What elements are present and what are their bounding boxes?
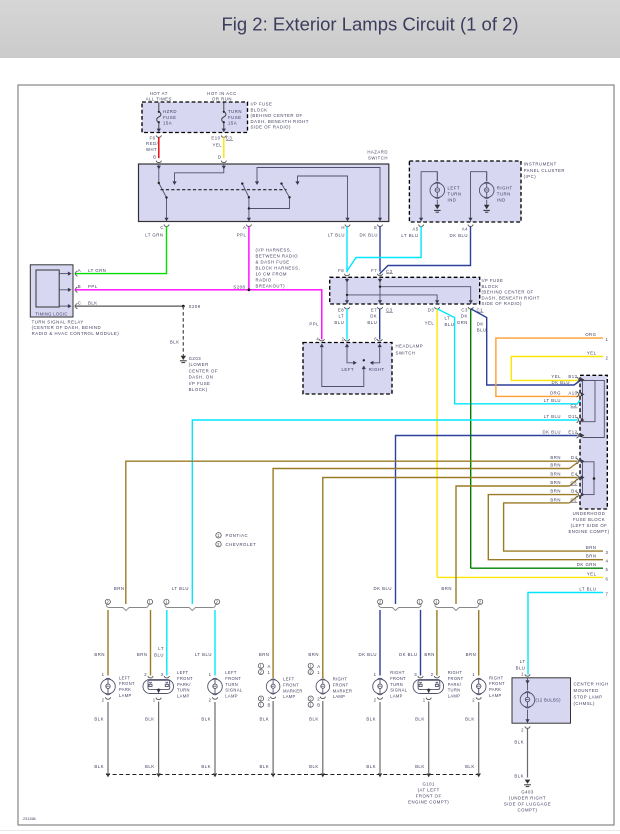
svg-text:LAMP: LAMP: [333, 694, 346, 699]
svg-text:LAMP: LAMP: [119, 693, 132, 698]
svg-text:(LEFT SIDE OF: (LEFT SIDE OF: [571, 523, 608, 528]
svg-text:1: 1: [606, 337, 609, 342]
svg-text:PANEL CLUSTER: PANEL CLUSTER: [524, 168, 565, 173]
svg-text:E10: E10: [211, 136, 220, 141]
svg-text:PARK: PARK: [119, 687, 131, 692]
wire LT BLU hazard H to F8: [346, 226, 348, 271]
svg-text:2: 2: [342, 336, 345, 341]
svg-text:1: 1: [435, 600, 438, 605]
svg-text:ENGINE COMPT): ENGINE COMPT): [408, 800, 449, 805]
svg-text:BRN: BRN: [466, 652, 477, 657]
svg-text:C2: C2: [571, 497, 578, 502]
svg-text:2: 2: [102, 697, 105, 702]
svg-text:FRONT: FRONT: [119, 681, 135, 686]
bracket 1 (BRN feed): [106, 605, 148, 611]
svg-text:C2: C2: [571, 403, 578, 408]
svg-text:BRN: BRN: [550, 497, 561, 502]
svg-text:PPL: PPL: [309, 322, 319, 327]
fuse HZRD FUSE 15A: [157, 103, 161, 132]
svg-text:LEFT: LEFT: [177, 670, 189, 675]
svg-text:S208: S208: [233, 285, 245, 290]
IPC internal wiring right: [471, 172, 487, 222]
svg-text:2: 2: [479, 600, 482, 605]
svg-text:TIMING LOGIC: TIMING LOGIC: [35, 312, 67, 317]
svg-text:DK GRN: DK GRN: [577, 562, 597, 567]
wire BLK CHMSL to G403: [527, 728, 529, 777]
svg-text:BRN: BRN: [586, 554, 597, 559]
svg-text:LEFT: LEFT: [225, 670, 237, 675]
wire BRN D4 run: [126, 461, 578, 604]
svg-text:BLU: BLU: [154, 652, 164, 657]
lamp RIGHT FRONT TURN SIGNAL LAMP: [373, 678, 388, 695]
turn signal relay box: [30, 265, 73, 317]
svg-text:DASH, BENEATH RIGHT: DASH, BENEATH RIGHT: [482, 295, 540, 300]
svg-text:IND: IND: [448, 198, 457, 203]
svg-text:BLU: BLU: [367, 320, 377, 325]
svg-text:(BEHIND CENTER OF: (BEHIND CENTER OF: [251, 113, 303, 118]
svg-text:DK BLU: DK BLU: [373, 586, 392, 591]
pin 4: [319, 339, 324, 341]
svg-text:2: 2: [260, 670, 263, 675]
svg-text:RADIO & HVAC CONTROL MODULE): RADIO & HVAC CONTROL MODULE): [32, 331, 120, 336]
svg-text:BLK: BLK: [366, 764, 376, 769]
svg-text:BLK: BLK: [415, 764, 425, 769]
wire BRN C3 run to bracket4: [456, 486, 570, 604]
wire BRN to left park/turn lamp: [150, 610, 152, 676]
underhood fuse block box: [580, 375, 607, 509]
svg-text:LT GRN: LT GRN: [88, 268, 106, 273]
pin A: [76, 271, 78, 276]
svg-text:BLK: BLK: [94, 764, 104, 769]
svg-text:F8: F8: [338, 268, 344, 273]
svg-text:A: A: [268, 664, 271, 669]
wire ORG stub 1 to underhood A10: [496, 338, 603, 396]
svg-text:HZRD: HZRD: [163, 109, 177, 114]
svg-text:LEFT: LEFT: [448, 186, 461, 191]
svg-text:BLU: BLU: [477, 328, 487, 333]
wire S2-S3 link: [249, 197, 290, 208]
svg-text:(LOWER: (LOWER: [189, 362, 209, 367]
svg-text:DK BLU: DK BLU: [358, 652, 377, 657]
svg-text:2: 2: [309, 696, 312, 701]
wire YEL D3 down: [436, 309, 438, 578]
svg-text:BLK: BLK: [465, 764, 475, 769]
pin B (hazard switch top): [156, 161, 161, 163]
svg-text:RADIO: RADIO: [256, 278, 272, 283]
svg-text:C3: C3: [386, 269, 393, 274]
wire DK BLU to right park/turn lamp: [420, 610, 422, 676]
svg-text:BLK: BLK: [309, 717, 319, 722]
node S209: [182, 305, 185, 308]
wire BRN E4 run: [323, 478, 578, 679]
svg-text:DK BLU: DK BLU: [359, 233, 378, 238]
svg-text:STOP LAMP: STOP LAMP: [574, 695, 603, 700]
headlamp switch box: [303, 343, 392, 395]
svg-text:HOT IN ACC: HOT IN ACC: [207, 91, 237, 96]
timing logic inner block: [36, 270, 59, 307]
svg-text:BLK: BLK: [259, 717, 269, 722]
svg-text:(UNDER RIGHT: (UNDER RIGHT: [509, 796, 546, 801]
svg-text:CHEVROLET: CHEVROLET: [226, 542, 257, 547]
svg-text:A4: A4: [462, 227, 468, 232]
svg-text:RIGHT: RIGHT: [333, 677, 348, 682]
svg-text:15A: 15A: [228, 121, 237, 126]
svg-text:YEL: YEL: [551, 374, 561, 379]
relay internal arrows: [59, 274, 69, 307]
svg-text:BLK: BLK: [465, 717, 475, 722]
svg-text:LT BLU: LT BLU: [172, 586, 189, 591]
svg-text:4: 4: [316, 336, 319, 341]
wire DK GRN C3 down: [470, 309, 472, 568]
pin C3/C1: [469, 300, 473, 304]
wire BRN B4 to stub 4: [488, 495, 603, 560]
svg-text:2: 2: [606, 356, 609, 361]
svg-text:PARK/: PARK/: [177, 682, 191, 687]
lamp RIGHT FRONT MARKER LAMP: [316, 679, 330, 694]
svg-text:1: 1: [268, 670, 271, 675]
svg-text:3: 3: [414, 672, 417, 677]
svg-text:A: A: [243, 225, 246, 230]
svg-text:HEADLAMP: HEADLAMP: [396, 344, 424, 349]
svg-text:SIGNAL: SIGNAL: [390, 688, 407, 693]
wire YEL: [223, 137, 225, 158]
svg-text:FRONT OF: FRONT OF: [416, 794, 442, 799]
svg-text:BLK: BLK: [201, 717, 211, 722]
headlamp switch internal wiring: [322, 347, 380, 387]
svg-text:B: B: [153, 155, 156, 160]
wire LT BLU A5 to F8: [347, 226, 421, 272]
wire BLK left front park lamp: [107, 702, 109, 773]
svg-text:1: 1: [260, 702, 263, 707]
svg-text:S209: S209: [189, 304, 201, 309]
wire E feed: [257, 168, 380, 222]
wire A output: [248, 197, 250, 221]
pin A4: [468, 218, 472, 222]
svg-text:TURN SIGNAL RELAY: TURN SIGNAL RELAY: [32, 319, 84, 324]
svg-text:IND: IND: [497, 198, 506, 203]
wire PPL hazard A to S208: [248, 226, 250, 290]
svg-text:D: D: [218, 155, 222, 160]
svg-text:DK: DK: [461, 314, 468, 319]
svg-text:B: B: [317, 703, 320, 708]
pin F7: [377, 274, 382, 276]
svg-text:DK: DK: [477, 321, 484, 326]
svg-text:(12 BULBS): (12 BULBS): [536, 698, 562, 703]
wire LT GRN hazard C to timing logic A: [75, 226, 167, 273]
svg-text:6: 6: [374, 336, 377, 341]
svg-text:BLU: BLU: [445, 322, 455, 327]
svg-text:ALL TIMES: ALL TIMES: [146, 97, 172, 102]
svg-text:DK BLU: DK BLU: [449, 233, 468, 238]
svg-text:BRN: BRN: [550, 455, 561, 460]
wire BRN C2 to stub 3: [504, 503, 603, 551]
wire BLK left park/turn lamp: [158, 702, 160, 774]
svg-text:DK BLU: DK BLU: [399, 652, 418, 657]
svg-text:BRN: BRN: [550, 489, 561, 494]
bulb LEFT TURN IND: [430, 182, 445, 199]
svg-text:1: 1: [309, 702, 312, 707]
svg-text:SIDE OF RADIO): SIDE OF RADIO): [482, 301, 522, 306]
lamp RIGHT FRONT PARK LAMP: [471, 678, 486, 695]
wire BLK dashed to G203: [182, 306, 184, 354]
pin E: [378, 218, 382, 222]
bulb RIGHT TURN IND: [479, 182, 494, 199]
svg-text:C3: C3: [461, 307, 468, 312]
svg-text:GRN: GRN: [457, 320, 468, 325]
svg-text:OR RUN: OR RUN: [212, 97, 232, 102]
lamp LEFT FRONT TURN SIGNAL LAMP: [208, 678, 223, 695]
wire BRN to left front park lamp: [107, 610, 109, 676]
svg-text:A10: A10: [568, 390, 577, 395]
svg-text:PARK/: PARK/: [448, 682, 462, 687]
svg-text:1: 1: [472, 672, 475, 677]
svg-text:A: A: [317, 664, 320, 669]
svg-text:LT: LT: [158, 646, 164, 651]
ground G403: [525, 780, 531, 784]
svg-text:E7: E7: [371, 307, 377, 312]
svg-text:1: 1: [153, 697, 156, 702]
svg-text:DASH, ON: DASH, ON: [189, 375, 214, 380]
svg-text:E: E: [374, 225, 377, 230]
svg-text:WHT: WHT: [146, 147, 157, 152]
svg-text:A: A: [78, 268, 81, 273]
svg-text:LT GRN: LT GRN: [145, 233, 163, 238]
note I/P fuse block location: [251, 102, 309, 130]
svg-text:ORG: ORG: [585, 332, 596, 337]
svg-text:G101: G101: [422, 782, 435, 787]
svg-text:BETWEEN RADIO: BETWEEN RADIO: [256, 254, 299, 259]
svg-text:2: 2: [216, 600, 219, 605]
svg-text:1: 1: [309, 664, 312, 669]
svg-text:BLOCK): BLOCK): [189, 387, 208, 392]
svg-text:BLK: BLK: [366, 717, 376, 722]
svg-text:MARKER: MARKER: [283, 688, 303, 693]
svg-text:B12: B12: [568, 374, 577, 379]
svg-text:2: 2: [209, 697, 212, 702]
svg-text:TURN: TURN: [228, 109, 242, 114]
svg-text:BLK: BLK: [88, 300, 98, 305]
pin H: [345, 218, 349, 222]
svg-text:HAZARD: HAZARD: [367, 150, 388, 155]
svg-text:2: 2: [309, 670, 312, 675]
svg-text:FRONT: FRONT: [448, 676, 464, 681]
svg-text:7: 7: [606, 592, 609, 597]
svg-text:& DASH FUSE: & DASH FUSE: [256, 260, 290, 265]
hazard switch HS1 box: [139, 164, 389, 222]
ground G101: [408, 782, 449, 805]
wire DK GRN to edge stub 5: [471, 567, 603, 569]
svg-text:2: 2: [260, 696, 263, 701]
note I/P harness: [256, 248, 301, 289]
pin A5: [419, 218, 423, 222]
pin D (hazard switch top): [221, 161, 226, 163]
svg-text:YEL: YEL: [587, 571, 597, 576]
svg-text:LT: LT: [445, 316, 451, 321]
svg-text:BRN: BRN: [550, 472, 561, 477]
svg-text:10 CM FROM: 10 CM FROM: [256, 272, 288, 277]
svg-text:BRN: BRN: [94, 652, 105, 657]
svg-text:BRN: BRN: [550, 463, 561, 468]
svg-text:YEL: YEL: [425, 321, 435, 326]
svg-text:TURN: TURN: [390, 682, 403, 687]
svg-text:YEL: YEL: [213, 143, 223, 148]
svg-text:RIGHT: RIGHT: [448, 670, 463, 675]
wire BLK right park/turn lamp: [428, 702, 430, 774]
svg-text:3: 3: [161, 672, 164, 677]
svg-text:LEFT: LEFT: [119, 675, 131, 680]
legend 1 PONTIAC: [216, 533, 221, 538]
svg-text:UNDERHOOD: UNDERHOOD: [573, 511, 606, 516]
wire YEL to edge stub 6: [437, 576, 603, 578]
I/P fuse block (top, dashed): [142, 102, 248, 133]
svg-text:D11: D11: [568, 414, 577, 419]
svg-text:2: 2: [106, 600, 109, 605]
svg-text:1: 1: [165, 600, 168, 605]
svg-text:LEFT: LEFT: [342, 367, 355, 372]
svg-text:DK: DK: [370, 314, 377, 319]
svg-text:4: 4: [606, 559, 609, 564]
svg-text:FRONT: FRONT: [225, 676, 241, 681]
wire YEL stub 2 to underhood B12: [511, 357, 603, 381]
svg-text:1: 1: [423, 697, 426, 702]
pin 6: [377, 339, 382, 341]
svg-text:(BEHIND CENTER OF: (BEHIND CENTER OF: [482, 290, 534, 295]
switch blade S3: [282, 184, 290, 198]
wire D input to contact: [175, 164, 224, 182]
wire DK BLU E12 run: [396, 436, 578, 605]
pin 2: [525, 726, 530, 728]
svg-text:TURN: TURN: [177, 688, 190, 693]
wire BLK timing C to S209: [75, 305, 184, 307]
svg-text:COMPT): COMPT): [518, 808, 538, 813]
svg-text:LT: LT: [338, 314, 344, 319]
wire BLK right turn signal lamp: [379, 702, 381, 773]
svg-text:B4: B4: [571, 489, 577, 494]
wire BRN left marker run: [273, 469, 569, 679]
IPC internal wiring left: [421, 172, 437, 222]
svg-text:2: 2: [431, 672, 434, 677]
svg-text:E12: E12: [568, 430, 577, 435]
svg-text:BLU: BLU: [334, 320, 344, 325]
pin D3: [435, 300, 439, 304]
svg-text:FRONT: FRONT: [489, 681, 505, 686]
svg-text:BLK: BLK: [201, 764, 211, 769]
wire PPL timing B to headlamp switch: [75, 290, 322, 340]
pin E10 / C3: [222, 129, 226, 133]
svg-text:2: 2: [144, 672, 147, 677]
contact arrows: [172, 181, 176, 185]
svg-text:BLK: BLK: [309, 764, 319, 769]
svg-text:LAMP: LAMP: [448, 694, 461, 699]
svg-text:DK BLU: DK BLU: [542, 430, 561, 435]
svg-text:FUSE: FUSE: [228, 115, 241, 120]
svg-text:HOT AT: HOT AT: [150, 91, 168, 96]
svg-text:RIGHT: RIGHT: [390, 670, 405, 675]
switch blade S2: [242, 184, 249, 198]
svg-text:I/P FUSE: I/P FUSE: [482, 278, 504, 283]
right ind ground: [486, 200, 488, 206]
svg-text:BRN: BRN: [259, 652, 270, 657]
svg-text:FUSE: FUSE: [163, 115, 176, 120]
note underhood fuse block: [568, 511, 609, 534]
svg-text:B: B: [268, 703, 271, 708]
svg-text:SIDE OF LUGGAGE: SIDE OF LUGGAGE: [504, 802, 551, 807]
wire H feed: [298, 176, 348, 222]
pin F8: [344, 274, 349, 276]
svg-text:BLU: BLU: [516, 665, 526, 670]
CHMSL box: [512, 678, 571, 723]
wire LT BLU to left park/turn lamp: [166, 610, 168, 676]
fuse TURN FUSE 15A: [222, 103, 226, 132]
svg-text:RIGHT: RIGHT: [489, 675, 504, 680]
svg-text:ORG: ORG: [550, 390, 561, 395]
svg-text:2: 2: [268, 697, 271, 702]
svg-text:A5: A5: [412, 227, 418, 232]
svg-text:BLOCK HARNESS,: BLOCK HARNESS,: [256, 266, 301, 271]
svg-text:2: 2: [317, 697, 320, 702]
svg-text:LAMP: LAMP: [225, 694, 238, 699]
pin B: [76, 287, 78, 292]
svg-text:BRN: BRN: [586, 545, 597, 550]
svg-text:Fig 2: Exterior Lamps Circuit: Fig 2: Exterior Lamps Circuit (1 of 2): [221, 14, 518, 35]
wire DK BLU to right turn signal lamp: [379, 610, 381, 676]
svg-text:1: 1: [217, 533, 220, 538]
ground bus (dashed): [106, 774, 479, 776]
svg-text:1: 1: [209, 672, 212, 677]
switch blade S1: [159, 183, 167, 198]
pin C: [76, 304, 78, 309]
svg-text:G203: G203: [189, 356, 202, 361]
wire BRN to right front park lamp: [478, 610, 480, 676]
underhood internal bus: [583, 380, 605, 494]
svg-text:1: 1: [521, 672, 524, 677]
svg-text:TURN: TURN: [497, 192, 511, 197]
svg-text:2: 2: [217, 542, 220, 547]
wire DK BLU A4 to F7: [380, 226, 471, 274]
wire BLK left marker lamp: [272, 701, 274, 773]
wire DK BLU C1 to underhood B12: [471, 309, 580, 385]
IPC box: [409, 161, 521, 222]
svg-text:TURN: TURN: [448, 192, 462, 197]
wire DK BLU E7 to headlamp 6: [379, 309, 381, 340]
svg-text:BLK: BLK: [514, 740, 524, 745]
svg-text:E8: E8: [338, 307, 344, 312]
svg-text:231266: 231266: [23, 817, 36, 821]
svg-text:ENGINE COMPT): ENGINE COMPT): [568, 529, 609, 534]
pin E7: [378, 300, 382, 304]
svg-text:LT BLU: LT BLU: [195, 652, 212, 657]
svg-text:BLK: BLK: [145, 764, 155, 769]
wire to output C: [166, 198, 168, 222]
svg-text:F7: F7: [371, 268, 377, 273]
svg-text:BRN: BRN: [114, 586, 125, 591]
note turn signal relay location: [32, 319, 120, 336]
svg-text:LT BLU: LT BLU: [544, 398, 561, 403]
svg-text:FUSE BLOCK: FUSE BLOCK: [573, 517, 605, 522]
svg-text:5: 5: [606, 567, 609, 572]
svg-text:LT: LT: [520, 659, 526, 664]
underhood pins: [577, 377, 579, 497]
svg-text:INSTRUMENT: INSTRUMENT: [524, 162, 557, 167]
svg-text:1: 1: [317, 670, 320, 675]
svg-text:BRN: BRN: [424, 652, 435, 657]
svg-text:TURN: TURN: [225, 682, 238, 687]
legend 2 CHEVROLET: [216, 542, 221, 547]
svg-text:SIDE OF RADIO): SIDE OF RADIO): [251, 125, 291, 130]
svg-text:G403: G403: [521, 790, 534, 795]
svg-text:C3: C3: [226, 136, 233, 141]
svg-text:C3: C3: [386, 307, 393, 312]
